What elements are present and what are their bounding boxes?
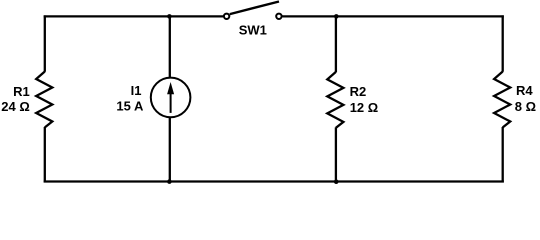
svg-text:R2: R2 — [350, 84, 367, 99]
node junction dot bottom-right (R2/bottom rail) — [334, 179, 339, 184]
node junction dot top-left (I1/top rail) — [167, 14, 172, 19]
wire left branch upper — [44, 15, 46, 71]
wire left branch lower — [44, 127, 46, 183]
node junction dot bottom-left (I1/bottom rail) — [167, 179, 172, 184]
svg-text:15 A: 15 A — [116, 98, 144, 113]
switch SW1 left contact — [224, 14, 229, 19]
resistor R1 — [36, 72, 52, 128]
svg-text:24 Ω: 24 Ω — [1, 99, 30, 114]
wire top-right segment (switch to node B) — [282, 15, 503, 17]
current source arrow — [167, 82, 174, 113]
node junction dot top-right (R2/top rail) — [334, 14, 339, 19]
current source I1 — [151, 78, 191, 118]
svg-text:8 Ω: 8 Ω — [515, 99, 536, 114]
wire I1 branch upper — [169, 16, 171, 78]
svg-text:R4: R4 — [516, 83, 533, 98]
svg-text:SW1: SW1 — [239, 23, 267, 38]
resistor R4 — [494, 72, 510, 128]
svg-text:I1: I1 — [131, 83, 142, 98]
switch SW1 right contact — [276, 14, 281, 19]
wire R4 branch upper — [502, 15, 504, 71]
wire bottom rail — [44, 180, 504, 182]
wire I1 branch lower — [169, 117, 171, 182]
wire R2 branch upper — [335, 16, 337, 72]
resistor R2 — [327, 72, 343, 128]
wire R4 branch lower — [502, 127, 504, 183]
wire top-left segment (node A to switch) — [44, 15, 224, 17]
switch SW1 blade — [230, 2, 279, 15]
svg-text:12 Ω: 12 Ω — [350, 100, 379, 115]
svg-text:R1: R1 — [13, 84, 30, 99]
wire R2 branch lower — [335, 127, 337, 182]
